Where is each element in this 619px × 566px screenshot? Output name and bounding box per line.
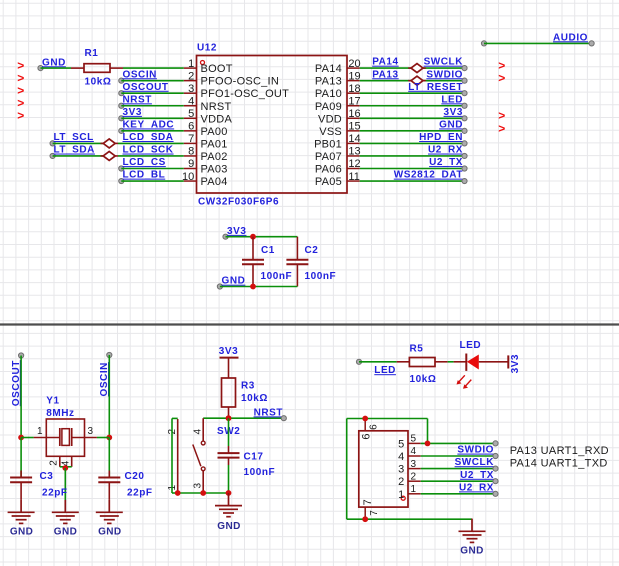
junction R3/SW2/C17	[226, 415, 232, 421]
U12 pin 6 (PA00)	[184, 121, 228, 138]
svg-text:6: 6	[369, 424, 380, 430]
value 8MHz of Y1	[46, 408, 74, 419]
jumper diamond PA13/SWDIO	[408, 76, 426, 85]
svg-text:OSCIN: OSCIN	[99, 362, 110, 396]
svg-text:8MHz: 8MHz	[46, 408, 74, 419]
label C20	[125, 471, 145, 482]
label GND under Y1	[54, 526, 77, 537]
svg-text:PA00: PA00	[201, 126, 228, 138]
connector pin 5 wire end dot	[493, 441, 498, 446]
node SWCLK (net label at connector pin 3)	[455, 457, 499, 471]
connector pin 7	[362, 499, 380, 519]
label R5	[410, 343, 424, 354]
svg-text:3: 3	[192, 483, 203, 489]
wire U12 pin 16 to 3V3	[360, 117, 465, 119]
svg-text:CW32F030F6P6: CW32F030F6P6	[198, 197, 279, 208]
off-sheet chevron row 4	[17, 96, 24, 110]
value 22pF of C20	[127, 487, 153, 498]
svg-text:C3: C3	[40, 471, 54, 482]
jumper diamond LT_SDA/LCD_SCK	[101, 151, 119, 160]
wire SW2 bottom row	[178, 492, 229, 494]
node LT_RESET (net label)	[408, 82, 467, 96]
svg-text:>: >	[498, 121, 505, 135]
wire U12 pin 14 to HPD_EN	[360, 142, 465, 144]
svg-text:PA01: PA01	[201, 138, 228, 150]
svg-text:PFOO-OSC_IN: PFOO-OSC_IN	[201, 76, 280, 88]
SW2 pin number 4	[192, 429, 203, 435]
wire OSCOUT vertical	[20, 356, 22, 438]
svg-text:22pF: 22pF	[42, 487, 68, 498]
svg-text:BOOT: BOOT	[201, 63, 233, 75]
svg-text:LED: LED	[441, 94, 463, 105]
svg-text:LT_SDA: LT_SDA	[54, 145, 95, 156]
U12 pin 2 (PFOO-OSC_IN)	[184, 70, 279, 87]
svg-text:3: 3	[88, 426, 94, 437]
value 22pF of C3	[42, 487, 68, 498]
connector pin 3	[398, 459, 421, 476]
junction OSCIN/Y1.3/C20	[106, 435, 112, 441]
resistor R3	[222, 378, 236, 418]
wire LT_SDA to ferrite jumper	[53, 155, 104, 157]
resistor R5	[397, 358, 448, 367]
wire connector pin6-pin7 outer loop	[347, 419, 366, 520]
svg-text:C17: C17	[244, 451, 264, 462]
svg-text:2: 2	[411, 471, 417, 482]
node NRST (net label)	[254, 407, 287, 420]
node OSCIN (net label, U12 pin 2)	[119, 69, 157, 83]
node LT_SDA (net label)	[50, 145, 95, 159]
U12 pin 11 (PA05)	[315, 171, 360, 188]
svg-text:Y1: Y1	[46, 396, 59, 407]
Y1 pin number 1	[37, 426, 43, 437]
svg-text:GND: GND	[98, 526, 121, 537]
svg-text:4: 4	[188, 95, 194, 107]
node HPD_EN (net label)	[419, 132, 467, 146]
node LED (net label)	[441, 94, 467, 108]
svg-text:PA14: PA14	[315, 63, 342, 75]
svg-text:22pF: 22pF	[127, 487, 153, 498]
label C1	[261, 245, 275, 256]
connector pin 6	[360, 419, 379, 440]
svg-text:U2_RX: U2_RX	[428, 145, 463, 156]
label SW2	[217, 426, 240, 437]
svg-text:GND: GND	[42, 57, 66, 68]
off-sheet chevron SWCLK	[498, 59, 505, 73]
node OSCOUT (vertical net label)	[11, 353, 24, 406]
annotation PA13 UART1_RXD	[510, 445, 609, 457]
value 10k&#937; of R3	[241, 393, 268, 404]
svg-text:6: 6	[188, 121, 194, 133]
svg-text:3V3: 3V3	[227, 226, 246, 237]
node LED (net label at R5)	[356, 359, 396, 376]
junction OSCOUT/Y1.1/C3	[18, 435, 24, 441]
svg-text:3V3: 3V3	[219, 346, 238, 357]
node OSCOUT (net label, U12 pin 3)	[119, 82, 169, 96]
value 100nF of C1	[261, 271, 293, 282]
op-amp U12 body (CW32F030F6P6 MCU)	[197, 56, 348, 194]
capacitor C3	[10, 438, 32, 500]
svg-text:1: 1	[37, 426, 43, 437]
label GND under C20	[98, 526, 121, 537]
node 3V3 (net label)	[444, 107, 468, 121]
node LCD_BL (net label, U12 pin 10)	[119, 170, 166, 184]
wire LCD_SDA to U12 pin 7	[118, 142, 184, 144]
node LCD_SCK (net label, U12 pin 8)	[123, 145, 174, 156]
svg-text:U12: U12	[197, 42, 217, 53]
wire OSCIN to U12 pin 2	[121, 80, 184, 82]
wire connector pin6 to pin5 row	[365, 419, 427, 444]
svg-text:PA06: PA06	[315, 164, 342, 176]
wire connector pin 2	[421, 480, 496, 482]
wire NRST row	[203, 417, 284, 419]
svg-text:20: 20	[348, 58, 360, 70]
wire connector pin 3	[421, 468, 496, 470]
svg-text:17: 17	[348, 95, 360, 107]
node WS2812_DAT (net label)	[394, 170, 467, 184]
U12 pin 5 (VDDA)	[184, 108, 233, 125]
svg-text:C1: C1	[261, 245, 275, 256]
wire junction to Y1 pin1	[21, 437, 33, 439]
SW2 pin number 2	[167, 429, 178, 435]
off-sheet chevron row 3	[17, 84, 24, 98]
node KEY_ADC (net label, U12 pin 6)	[119, 119, 174, 133]
svg-text:3: 3	[411, 459, 417, 470]
svg-text:19: 19	[348, 70, 360, 82]
svg-text:100nF: 100nF	[261, 271, 293, 282]
wire OSCIN vertical	[108, 355, 110, 438]
svg-text:1: 1	[398, 489, 404, 501]
wire 3V3 rail (C1/C2 top)	[226, 236, 298, 238]
svg-text:3V3: 3V3	[444, 107, 463, 118]
off-sheet chevron GND	[498, 121, 505, 135]
U12 pin 3 (PFO1-OSC_OUT)	[184, 83, 289, 100]
svg-text:2: 2	[188, 70, 194, 82]
svg-text:WS2812_DAT: WS2812_DAT	[394, 170, 463, 181]
wire LT_SCL to ferrite jumper	[53, 142, 104, 144]
wire GND-R1 (green)	[41, 67, 72, 69]
svg-text:10kΩ: 10kΩ	[410, 374, 437, 385]
svg-text:SWDIO: SWDIO	[457, 445, 494, 456]
node GND (net label, row 1)	[38, 57, 66, 70]
svg-text:R1: R1	[85, 48, 99, 59]
Y1 pin number 2	[49, 460, 60, 466]
capacitor C17	[218, 418, 240, 493]
node SWCLK (net label)	[424, 57, 468, 71]
node LCD_CS (net label, U12 pin 9)	[119, 157, 166, 171]
svg-text:100nF: 100nF	[244, 467, 276, 478]
svg-text:7: 7	[362, 499, 374, 505]
node SWDIO (net label)	[426, 69, 467, 83]
wire connector pin7 row to GND	[365, 518, 472, 520]
svg-text:LCD_CS: LCD_CS	[123, 157, 166, 168]
svg-text:13: 13	[348, 146, 360, 158]
junction GND/C1	[250, 284, 256, 290]
svg-text:GND: GND	[54, 526, 77, 537]
svg-text:LCD_SDA: LCD_SDA	[123, 132, 174, 143]
capacitor C20	[98, 438, 120, 500]
connector pin 1	[398, 484, 421, 501]
wire NRST to U12 pin 4	[121, 105, 184, 107]
wire SW2 pin2-pin1 outer loop	[172, 418, 178, 493]
svg-text:LED: LED	[460, 340, 482, 351]
wire Y1 gnd down	[64, 468, 66, 500]
jumper diamond PA14/SWCLK	[408, 64, 426, 73]
node U2_RX (net label)	[428, 145, 467, 159]
ground bottom right	[459, 519, 486, 543]
U12 pin 10 (PA04)	[182, 171, 228, 188]
ground under SW2/C17	[215, 493, 242, 517]
node LCD_SDA (net label, U12 pin 7)	[123, 132, 174, 143]
node PA13 (net alias label)	[372, 69, 398, 80]
value 10k&#937; of R1	[85, 76, 112, 87]
svg-text:10kΩ: 10kΩ	[85, 76, 112, 87]
off-sheet chevron row 1	[17, 59, 24, 73]
SW2 pin number 1	[167, 485, 178, 491]
svg-text:100nF: 100nF	[305, 271, 337, 282]
connector J1 body	[359, 431, 408, 507]
svg-text:10kΩ: 10kΩ	[241, 393, 268, 404]
capacitor C1	[242, 237, 264, 287]
node 3V3 (net label at C1/C2)	[223, 226, 247, 239]
svg-text:>: >	[498, 71, 505, 85]
value 10k&#937; of R5	[410, 374, 437, 385]
wire U12 pin 18 to LT_RESET	[360, 92, 465, 94]
power flag 3V3 above R3	[219, 346, 239, 378]
svg-text:9: 9	[188, 158, 194, 170]
label C17	[244, 451, 264, 462]
node U2_TX (net label at connector pin 2)	[460, 470, 498, 484]
wire connector pin 5	[421, 442, 496, 444]
svg-text:6: 6	[360, 433, 372, 439]
svg-text:PA03: PA03	[201, 164, 228, 176]
svg-text:1: 1	[411, 484, 417, 495]
svg-text:KEY_ADC: KEY_ADC	[123, 119, 175, 130]
label GND under SW2	[217, 521, 240, 532]
svg-text:SWCLK: SWCLK	[455, 457, 495, 468]
crystal Y1	[34, 419, 97, 467]
svg-text:4: 4	[411, 446, 417, 457]
svg-text:PA14: PA14	[372, 57, 398, 68]
svg-text:U2_TX: U2_TX	[460, 470, 494, 481]
wire connector pin 4	[421, 455, 496, 457]
wire connector pin 1	[421, 493, 496, 495]
svg-text:HPD_EN: HPD_EN	[419, 132, 463, 143]
U12 pin 14 (PB01)	[314, 133, 361, 150]
node LT_SCL (net label)	[50, 132, 94, 146]
node SWDIO (net label at connector pin 4)	[457, 445, 498, 459]
svg-text:15: 15	[348, 121, 360, 133]
U12 pin 1 (BOOT)	[184, 58, 233, 75]
junction pin6/pin5 tie	[425, 441, 431, 447]
svg-text:OSCIN: OSCIN	[123, 69, 157, 80]
svg-text:3: 3	[398, 464, 404, 476]
Y1 pin number 4	[61, 460, 72, 466]
node AUDIO (net label)	[553, 32, 588, 43]
U12 pin 16 (VDD)	[318, 108, 361, 125]
label R3	[241, 380, 255, 391]
U12 pin 9 (PA03)	[184, 158, 228, 175]
value CW32F030F6P6	[198, 197, 279, 208]
svg-text:2: 2	[398, 476, 404, 488]
off-sheet chevron row 2	[17, 71, 24, 85]
svg-text:PA13: PA13	[315, 76, 342, 88]
wire Y1 pin3 to junction	[97, 437, 109, 439]
wire 3V3 to U12 pin 5	[121, 117, 184, 119]
svg-text:LCD_SCK: LCD_SCK	[123, 145, 174, 156]
svg-text:LT_RESET: LT_RESET	[408, 82, 463, 93]
LED diode	[454, 354, 509, 389]
U12 pin 15 (VSS)	[319, 121, 360, 138]
svg-text:5: 5	[188, 108, 194, 120]
label GND bottom right	[460, 546, 483, 557]
Y1 pin number 3	[88, 426, 94, 437]
svg-text:LED: LED	[374, 365, 396, 376]
svg-text:4: 4	[192, 429, 203, 435]
wire LED net to R5	[359, 361, 397, 363]
svg-text:NRST: NRST	[123, 94, 152, 105]
wire LCD_BL to U12 pin 10	[121, 180, 184, 182]
wire AUDIO	[481, 41, 594, 46]
wire U12 pin 12 to U2_TX	[360, 168, 465, 170]
svg-text:PA07: PA07	[315, 151, 342, 163]
wire LCD_CS to U12 pin 9	[121, 168, 184, 170]
switch SW2	[178, 418, 205, 493]
junction SW2.1	[175, 490, 181, 496]
wire U12 pin 15 to GND	[360, 130, 465, 132]
U12 pin 7 (PA01)	[184, 133, 228, 150]
svg-text:LT_SCL: LT_SCL	[54, 132, 94, 143]
svg-text:3V3: 3V3	[123, 107, 142, 118]
svg-text:7: 7	[369, 510, 380, 516]
off-sheet chevron 3V3	[498, 109, 505, 123]
label LED component	[460, 340, 482, 351]
wire GND rail (C1/C2 bottom)	[220, 286, 298, 288]
svg-text:8: 8	[188, 146, 194, 158]
connector pin 2	[398, 471, 421, 488]
svg-text:12: 12	[348, 158, 360, 170]
U12 pin 8 (PA02)	[184, 146, 228, 163]
svg-text:5: 5	[398, 438, 404, 450]
node 3V3 (net label, U12 pin 5)	[119, 107, 142, 121]
svg-text:GND: GND	[439, 119, 463, 130]
svg-text:18: 18	[348, 83, 360, 95]
svg-text:10: 10	[182, 171, 194, 183]
wire U12 pin 20 to SWCLK	[360, 67, 465, 69]
svg-text:PA02: PA02	[201, 151, 228, 163]
svg-text:16: 16	[348, 108, 360, 120]
svg-text:GND: GND	[217, 521, 240, 532]
svg-text:PA09: PA09	[315, 101, 342, 113]
svg-text:2: 2	[49, 460, 60, 466]
wire U12 pin 13 to U2_RX	[360, 155, 465, 157]
U12 pin 18 (PA10)	[315, 83, 361, 100]
wire U12 pin 17 to LED	[360, 105, 465, 107]
off-sheet chevron row 5	[17, 109, 24, 123]
svg-text:PA14 UART1_TXD: PA14 UART1_TXD	[510, 458, 608, 470]
U12 pin 12 (PA06)	[315, 158, 361, 175]
svg-text:PA04: PA04	[201, 176, 228, 188]
node U2_TX (net label)	[429, 157, 467, 171]
node OSCIN (vertical net label)	[99, 352, 112, 396]
svg-text:PA05: PA05	[315, 176, 342, 188]
label U12	[197, 42, 217, 53]
U12 pin 19 (PA13)	[315, 70, 361, 87]
label C2	[305, 245, 319, 256]
annotation PA14 UART1_TXD	[510, 458, 608, 470]
svg-text:VSS: VSS	[319, 126, 342, 138]
U12 pin 20 (PA14)	[315, 58, 361, 75]
svg-text:SWCLK: SWCLK	[424, 57, 464, 68]
svg-text:U2_TX: U2_TX	[429, 157, 463, 168]
label Y1	[46, 396, 59, 407]
U12 pin 17 (PA09)	[315, 95, 361, 112]
wire LCD_SCK to U12 pin 8	[118, 155, 184, 157]
node NRST (net label, U12 pin 4)	[119, 94, 152, 108]
svg-text:5: 5	[411, 434, 417, 445]
wire U12 pin 19 to SWDIO	[360, 80, 465, 82]
svg-text:1: 1	[188, 58, 194, 70]
junction Y1.2/Y1.4	[62, 465, 68, 471]
wire OSCOUT to U12 pin 3	[121, 92, 184, 94]
svg-text:NRST: NRST	[201, 101, 232, 113]
svg-text:PB01: PB01	[314, 138, 342, 150]
junction 3V3/C1	[250, 234, 256, 240]
label R1	[85, 48, 99, 59]
section divider line	[0, 323, 619, 325]
svg-text:GND: GND	[460, 546, 483, 557]
connector pin 5	[398, 434, 421, 451]
node U2_RX (net label at connector pin 1)	[459, 482, 498, 496]
wire R1-U12.1 (green)	[123, 67, 184, 69]
node GND (net label)	[439, 119, 467, 133]
svg-text:3: 3	[188, 83, 194, 95]
junction SW2.3	[200, 490, 206, 496]
svg-text:C20: C20	[125, 471, 145, 482]
svg-text:4: 4	[398, 451, 404, 463]
U12 pin 4 (NRST)	[184, 95, 232, 112]
capacitor C2	[286, 237, 308, 287]
svg-text:>: >	[17, 109, 24, 123]
svg-text:C2: C2	[305, 245, 319, 256]
svg-text:VDDA: VDDA	[201, 113, 233, 125]
off-sheet chevron SWDIO	[498, 71, 505, 85]
junction connector pin6	[362, 416, 368, 422]
svg-text:OSCOUT: OSCOUT	[11, 360, 22, 406]
node GND (net label at C1/C2)	[217, 276, 245, 289]
ground under Y1	[52, 500, 79, 524]
value 100nF of C17	[244, 467, 276, 478]
svg-text:LCD_BL: LCD_BL	[123, 170, 166, 181]
wire U12 pin 11 to WS2812_DAT	[360, 180, 465, 182]
ground under C20	[96, 500, 123, 524]
svg-text:NRST: NRST	[254, 407, 283, 418]
wire KEY_ADC to U12 pin 6	[121, 130, 184, 132]
ground under C3	[8, 500, 35, 524]
wire R5 to LED anode	[448, 361, 454, 363]
wire Y1 pins 2-4 tie	[60, 466, 72, 468]
resistor R1	[71, 64, 123, 73]
svg-text:PFO1-OSC_OUT: PFO1-OSC_OUT	[201, 88, 290, 100]
svg-text:14: 14	[348, 133, 360, 145]
svg-text:OSCOUT: OSCOUT	[123, 82, 169, 93]
svg-text:PA13: PA13	[372, 69, 398, 80]
connector pin 4	[398, 446, 421, 463]
svg-text:11: 11	[348, 171, 359, 183]
svg-text:GND: GND	[222, 276, 246, 287]
svg-text:PA13 UART1_RXD: PA13 UART1_RXD	[510, 445, 609, 457]
node PA14 (net alias label)	[372, 57, 398, 68]
label C3	[40, 471, 54, 482]
